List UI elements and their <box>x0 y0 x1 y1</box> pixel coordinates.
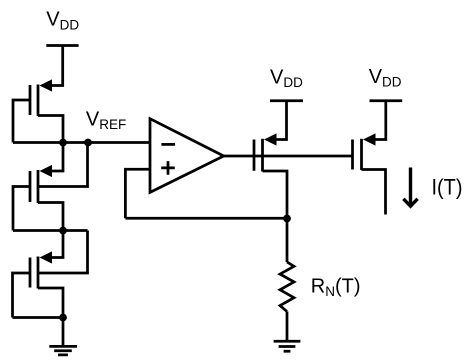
wire feedback to node B <box>125 217 287 220</box>
junction dot node B <box>283 215 291 223</box>
transistor M3 gate bar <box>29 258 32 288</box>
transistor M3 channel bar <box>37 257 40 289</box>
transistor M4 source arrow (PMOS) <box>264 133 277 145</box>
wire M5 drain (output, open end) <box>362 170 386 215</box>
power VDD bar (right supply) <box>370 99 403 102</box>
transistor M2 gate bar <box>29 171 32 202</box>
wire M3 body tie to node A <box>38 231 88 274</box>
wire node A rail <box>13 229 88 232</box>
transistor M2 channel bar <box>37 170 40 203</box>
svg-text:RN(T): RN(T) <box>311 275 361 299</box>
wire resistor to ground (right) <box>286 312 289 342</box>
resistor RN zigzag <box>280 262 294 312</box>
wire op-amp output to M4 and M5 gates <box>224 155 353 158</box>
wire node B to resistor <box>286 218 289 262</box>
transistor M5 channel bar <box>360 139 363 170</box>
transistor M4 gate bar <box>253 140 256 171</box>
wire VREF rail (node VREF) <box>13 141 150 144</box>
transistor M1 channel bar <box>37 85 40 117</box>
wire M3 drain to ground node <box>38 288 63 318</box>
junction dot ground node (left) <box>59 314 67 322</box>
wire VDD stem to M5 source <box>375 101 386 140</box>
wire ground node rail <box>13 316 64 319</box>
ground symbol (right) <box>274 341 301 351</box>
wire M1 drain to VREF rail <box>38 116 63 143</box>
junction dot node A <box>59 227 67 235</box>
wire M1 gate lead to VREF rail <box>13 100 30 143</box>
wire M2 gate lead to node A <box>13 187 30 231</box>
wire ground stem (left) <box>62 318 65 347</box>
wire M4 drain to node B <box>263 171 288 218</box>
transistor M1 gate bar <box>29 85 32 115</box>
wire M2 source from VREF rail <box>50 143 63 172</box>
wire VDD stem to M1 source <box>50 46 63 86</box>
wire VDD stem to M4 source <box>275 101 287 140</box>
op-amp U1 plus input sign <box>161 161 175 175</box>
op-amp U1 triangle <box>150 119 224 193</box>
transistor M4 channel bar <box>261 139 264 172</box>
power VDD bar (left supply) <box>46 44 78 47</box>
transistor M2 source arrow (PMOS) <box>40 165 53 177</box>
svg-text:I(T): I(T) <box>432 175 463 200</box>
transistor M1 source arrow (PMOS) <box>40 79 53 91</box>
transistor M5 gate bar <box>351 140 354 170</box>
transistor M3 source arrow (PMOS) <box>40 251 53 263</box>
wire op-amp plus input to feedback <box>125 169 150 218</box>
ground symbol (left) <box>49 346 77 355</box>
wire M2 body tie to VREF rail <box>38 143 88 187</box>
wire M2 drain to node A <box>38 203 63 231</box>
junction dot M1 drain on VREF rail <box>59 139 67 147</box>
current arrow I(T) <box>403 168 417 207</box>
wire M3 gate lead to ground node <box>13 273 31 318</box>
junction dot M2 body on VREF rail <box>84 139 92 147</box>
transistor M5 source arrow (PMOS) <box>363 133 376 145</box>
op-amp U1 minus input sign <box>161 143 175 146</box>
power VDD bar (middle supply) <box>270 99 303 102</box>
wire M3 source from node A <box>50 231 63 258</box>
